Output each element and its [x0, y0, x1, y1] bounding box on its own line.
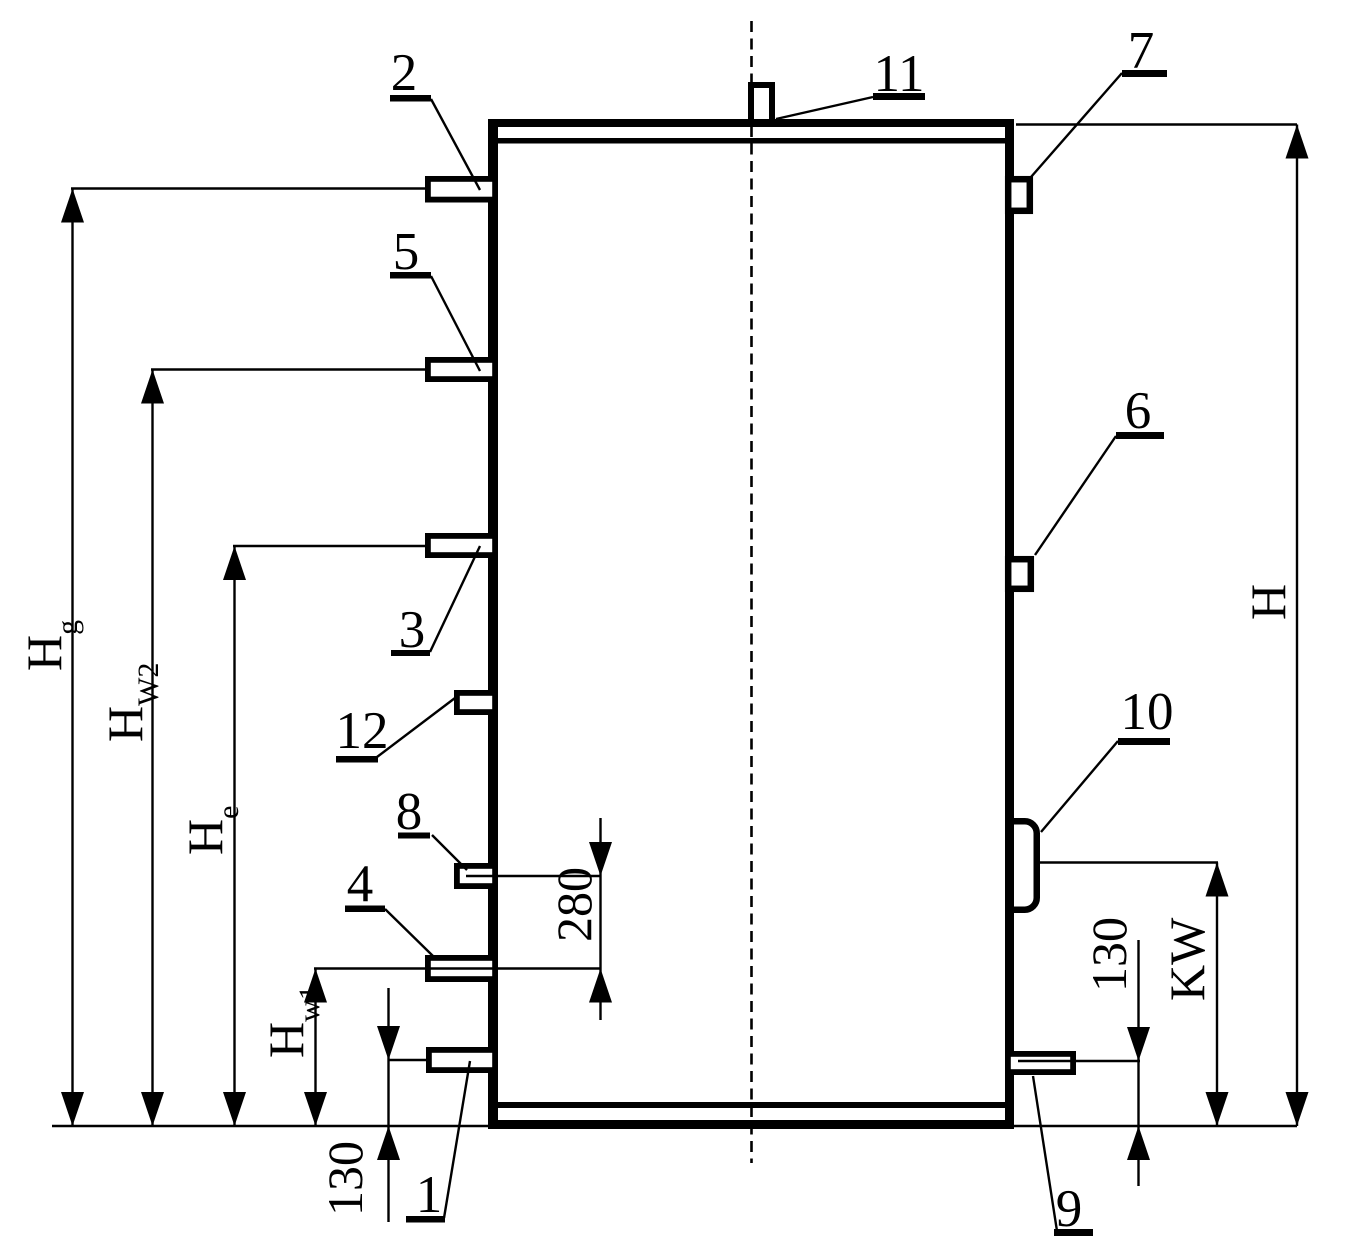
leader 3: [430, 546, 480, 652]
svg-text:H: H: [1240, 584, 1296, 620]
port 9: [1008, 1054, 1073, 1072]
leader 2: [431, 99, 480, 190]
dimension 280 line: [599, 818, 601, 1020]
port 8: [457, 866, 495, 886]
heater pocket 10: [1010, 821, 1037, 910]
svg-text:6: 6: [1125, 382, 1152, 440]
svg-text:12: 12: [336, 702, 389, 760]
dimension Hw2 line: [151, 370, 153, 1127]
centerline (dashed axis): [750, 21, 753, 1163]
dimension H extension line: [1016, 123, 1297, 125]
port 3: [428, 536, 495, 555]
dimension 130 left extension line: [389, 1059, 430, 1061]
tank body right wall: [1005, 119, 1014, 1129]
tank top inner line: [495, 138, 1005, 144]
leader 5: [431, 276, 480, 371]
svg-text:Hg: Hg: [16, 620, 84, 671]
dimension Hg line: [71, 189, 73, 1127]
tank bottom outer line: [488, 1120, 1014, 1129]
dimension Hw1 line: [314, 969, 316, 1127]
svg-text:10: 10: [1121, 683, 1174, 741]
dimension KW extension line: [1040, 861, 1218, 863]
leader 6: [1035, 436, 1116, 555]
port 12: [457, 693, 495, 712]
dimension 130 left line: [387, 988, 389, 1222]
port 5: [428, 360, 495, 379]
leader 4: [385, 909, 434, 957]
tank top outer line: [488, 119, 1014, 127]
svg-text:280: 280: [546, 867, 602, 942]
port 4: [428, 958, 495, 979]
dimension 130 right line: [1137, 940, 1139, 1186]
leader 11: [776, 97, 873, 119]
svg-text:4: 4: [347, 855, 374, 913]
svg-text:2: 2: [391, 44, 418, 102]
dimension 130 right extension line: [1018, 1060, 1140, 1062]
port 6: [1008, 559, 1031, 589]
stub 11 (top nozzle): [751, 85, 772, 121]
leader 1: [444, 1061, 470, 1218]
ground baseline: [52, 1125, 1297, 1127]
dimension Hw2 extension line: [151, 368, 425, 370]
port 1: [429, 1050, 495, 1070]
port 2: [428, 179, 495, 200]
leader 12: [377, 698, 455, 757]
leader 9: [1033, 1076, 1057, 1231]
dimension Hg extension line: [71, 187, 425, 189]
leader 7: [1031, 73, 1122, 177]
dimension KW line: [1216, 863, 1218, 1127]
svg-text:130: 130: [317, 1141, 373, 1216]
dimension He extension line: [233, 545, 425, 547]
leader 8: [432, 835, 467, 870]
dimension H line: [1296, 125, 1298, 1127]
svg-text:HW2: HW2: [97, 663, 165, 742]
dimension Hw1 extension line (shared with 280 lower reference): [314, 967, 601, 969]
svg-text:8: 8: [396, 783, 423, 841]
svg-text:130: 130: [1081, 917, 1137, 992]
svg-text:KW: KW: [1159, 917, 1215, 1001]
port 7: [1008, 179, 1030, 211]
svg-text:1: 1: [416, 1166, 443, 1224]
tank bottom inner line: [495, 1102, 1005, 1108]
leader 10: [1041, 741, 1118, 832]
tank body left wall: [488, 119, 498, 1129]
dimension 280 extension line: [466, 875, 601, 877]
dimension He line: [233, 546, 235, 1126]
